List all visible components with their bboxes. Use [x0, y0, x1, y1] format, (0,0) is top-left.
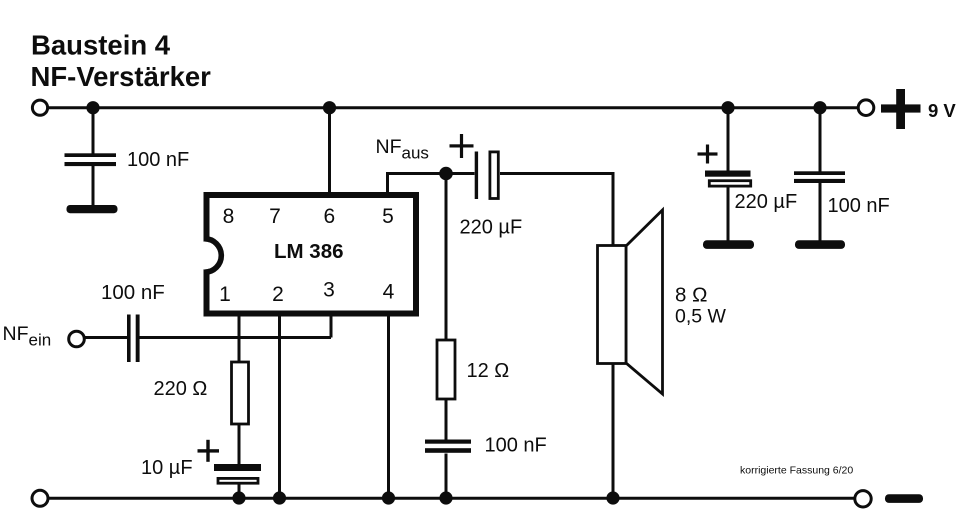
svg-text:7: 7	[269, 205, 281, 228]
svg-text:LM 386: LM 386	[274, 240, 344, 263]
svg-text:4: 4	[383, 281, 395, 304]
svg-text:1: 1	[219, 283, 231, 306]
svg-text:100 nF: 100 nF	[828, 195, 890, 217]
svg-text:2: 2	[272, 283, 284, 306]
svg-text:100 nF: 100 nF	[485, 435, 547, 457]
svg-text:12 Ω: 12 Ω	[467, 360, 510, 382]
svg-text:NF-Verstärker: NF-Verstärker	[31, 61, 212, 92]
svg-text:3: 3	[323, 279, 335, 302]
svg-text:6: 6	[323, 205, 335, 228]
svg-text:8 Ω: 8 Ω	[675, 284, 707, 307]
svg-text:220 Ω: 220 Ω	[154, 378, 208, 400]
svg-text:Baustein 4: Baustein 4	[31, 30, 171, 61]
svg-text:10 µF: 10 µF	[141, 457, 193, 479]
svg-text:100 nF: 100 nF	[101, 281, 165, 304]
svg-text:korrigierte Fassung 6/20: korrigierte Fassung 6/20	[740, 465, 853, 477]
svg-text:0,5 W: 0,5 W	[675, 306, 727, 328]
svg-text:100 nF: 100 nF	[127, 149, 189, 171]
svg-text:5: 5	[382, 205, 394, 228]
svg-text:220 µF: 220 µF	[460, 217, 523, 239]
svg-text:8: 8	[223, 205, 235, 228]
svg-text:9 V: 9 V	[928, 100, 956, 121]
svg-text:220 µF: 220 µF	[735, 191, 798, 213]
